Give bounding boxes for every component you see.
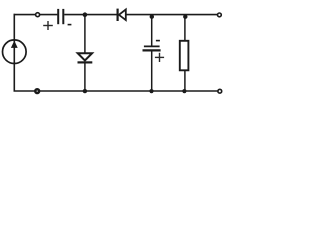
output terminal bottom xyxy=(218,89,222,93)
input terminal bottom xyxy=(35,89,39,93)
wire bottom rail xyxy=(14,90,218,92)
input terminal top xyxy=(36,13,40,17)
resistor R1 xyxy=(180,41,189,71)
wire top rail middle segment xyxy=(64,14,116,16)
junction dot node B at R xyxy=(183,15,187,19)
junction dot ground at C2 xyxy=(149,89,153,93)
wire R bottom lead xyxy=(184,70,186,91)
wire top rail left segment xyxy=(14,14,58,16)
junction dot ground at R xyxy=(182,89,186,93)
current source I1 xyxy=(3,40,27,64)
wire R top lead xyxy=(184,15,186,41)
wire C2 bottom lead xyxy=(151,51,153,91)
junction dot node A top xyxy=(83,12,88,17)
minus label of C2 xyxy=(156,40,160,42)
capacitor C2 xyxy=(143,46,161,50)
wire diode D1 cathode xyxy=(84,63,86,91)
junction dot node ground at D1 xyxy=(83,89,87,93)
minus label of C1 xyxy=(68,24,72,26)
capacitor C1 xyxy=(58,9,63,24)
wire C2 top lead xyxy=(151,15,153,46)
plus label of C1 xyxy=(43,21,53,30)
output terminal top xyxy=(218,13,222,17)
plus label of C2 xyxy=(155,53,164,62)
wire left vertical xyxy=(13,14,15,91)
wire top rail right segment xyxy=(126,14,218,16)
diode D2 xyxy=(118,9,126,21)
junction dot node B at C2 xyxy=(150,15,154,19)
wire diode D1 anode xyxy=(84,15,86,53)
diode D1 xyxy=(78,53,93,62)
